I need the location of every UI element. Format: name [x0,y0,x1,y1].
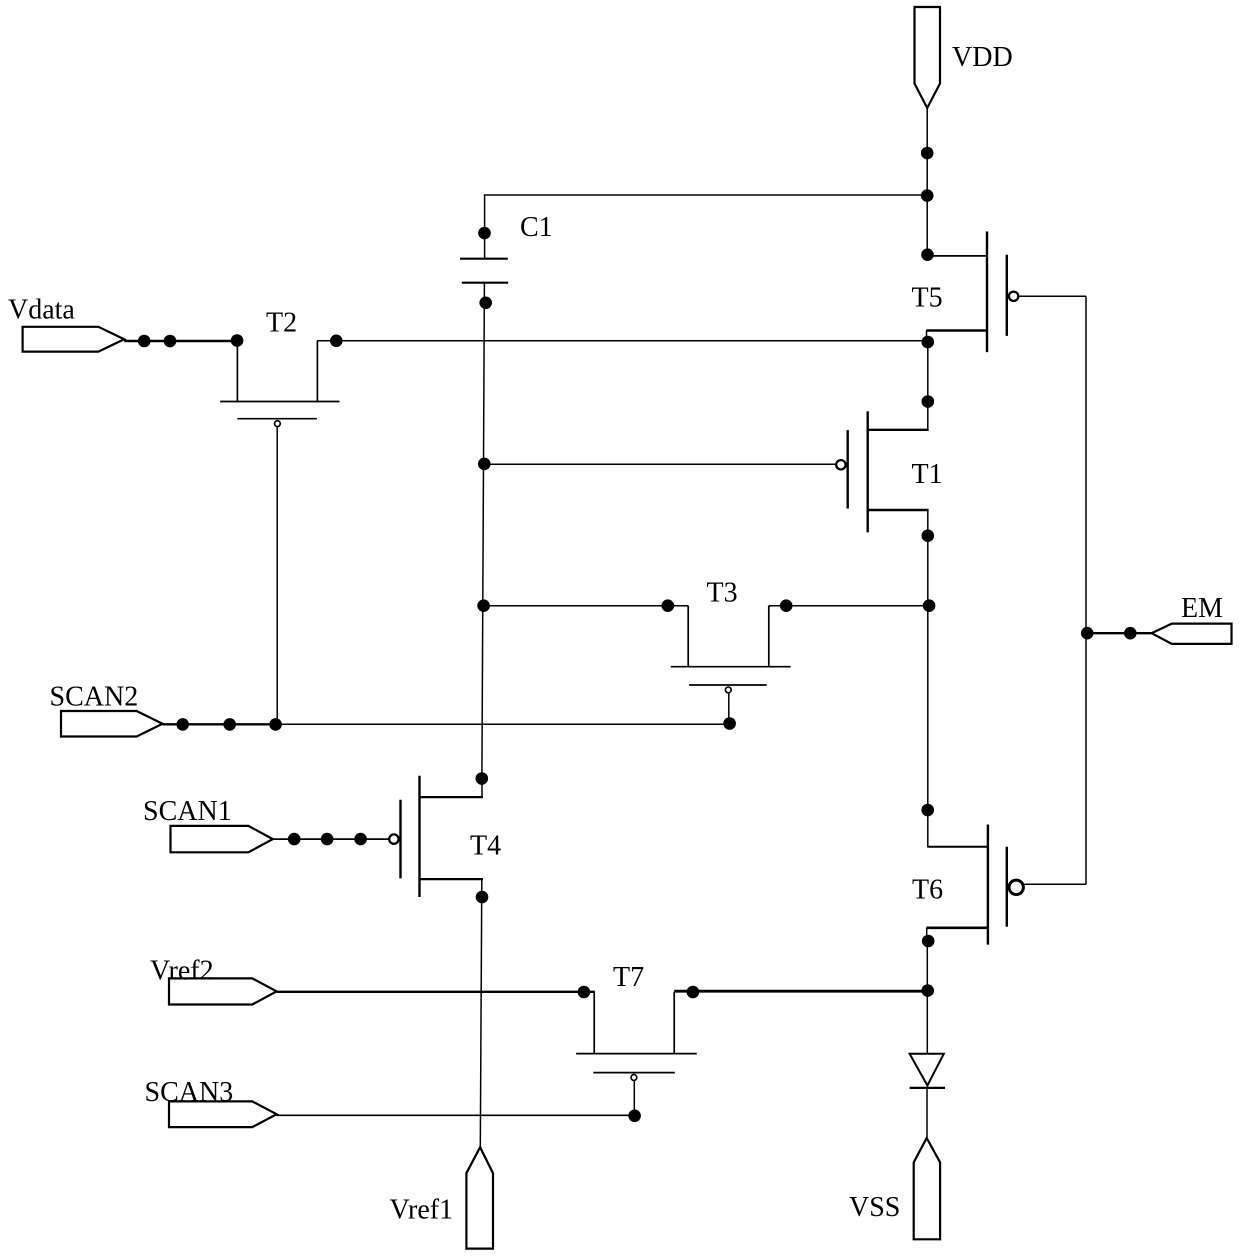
terminal EM [1152,624,1232,644]
wire T3 right to node B [769,605,929,607]
terminal Vref1 [466,1147,493,1248]
svg-text:Vref2: Vref2 [150,956,214,987]
junction dot T2 drain [330,335,343,348]
junction dot EM line [1081,627,1094,640]
transistor T5 source lead [926,329,987,332]
transistor T7 gate lead [633,1081,635,1116]
wire VDD vertical [926,108,928,256]
junction dot T5 drain [921,248,934,261]
svg-text:T1: T1 [912,459,943,490]
wire T7 right to VSS line [674,990,928,993]
transistor T3 left lead [687,606,689,667]
junction dot T2 source [231,334,244,347]
transistor T3 channel bar [671,666,791,668]
diode OLED cathode bar [910,1087,945,1089]
transistor T5 source bend [926,331,928,343]
wire T4 drain vertical [481,778,483,797]
terminal VDD [915,7,941,108]
svg-text:Vref1: Vref1 [390,1195,454,1226]
junction dot SCAN2 / T2 gate [269,718,282,731]
wire T5 gate to EM line [1019,295,1086,297]
transistor T4 gate circle [389,834,398,843]
junction dot VDD line upper [921,147,934,160]
junction dot SCAN1 pin 1 [288,833,301,846]
junction dot T7 right pin [687,986,700,999]
transistor T4 channel bar [418,776,420,897]
wire C1 bottom to T4 drain (node A vertical) [482,283,485,779]
wire node A to T1 gate [484,463,836,465]
wire diode cathode to VSS terminal [926,1088,928,1139]
wire T2 drain to T5 source node [317,340,927,342]
junction dot SCAN2 pin 1 [176,718,189,731]
wire EM junction to EM terminal [1086,632,1152,634]
terminal SCAN3 [169,1101,277,1127]
transistor T1 drain lead [868,429,929,431]
capacitor C1 bottom plate [462,282,508,284]
wire node A to T3 left [484,605,688,607]
transistor T7 left lead [593,992,595,1054]
svg-text:VSS: VSS [849,1192,900,1223]
junction dot T3 gate on SCAN2 [723,717,736,730]
transistor T2 channel bar [220,401,339,403]
transistor T2 source lead [236,341,238,402]
junction dot T7 left pin [578,986,591,999]
transistor T2 gate bar [237,418,317,420]
wire top horizontal VDD to C1 [484,194,927,196]
capacitor C1 top plate [460,258,508,260]
wire Vref2 to T7 left [277,991,595,993]
svg-text:T4: T4 [470,831,501,862]
junction dot EM pin [1124,627,1137,640]
wire SCAN2 trunk thick [163,723,276,725]
junction dot Vdata pin 1 [138,335,151,348]
terminal Vref2 [169,978,277,1004]
transistor T6 source lead [927,926,988,929]
wire T1 source down to T6 drain [927,510,929,847]
junction dot T4 drain [476,772,489,785]
terminal VSS [914,1138,940,1239]
junction dot SCAN1 pin 3 [354,833,367,846]
junction dot T4 source [476,891,489,904]
wire SCAN2 to T3 gate [276,723,730,725]
junction dot C1 bottom [479,297,492,310]
transistor T5 gate circle [1009,292,1018,301]
svg-text:Vdata: Vdata [8,294,75,325]
terminal SCAN1 [171,826,273,852]
transistor T5 channel bar [986,232,988,353]
transistor T7 gate bar [593,1072,675,1074]
junction dot VDD top-wire [921,189,934,202]
transistor T6 source bend [926,928,928,942]
junction dot C1 top [478,227,491,240]
transistor T2 gate circle [275,421,281,427]
wire EM vertical line [1085,296,1087,884]
transistor T4 drain lead [420,796,484,798]
wire node B T5 source to T1 drain [927,341,929,430]
svg-text:T5: T5 [912,283,943,314]
junction dot Vdata pin 2 [164,335,177,348]
transistor T5 gate bar [1006,255,1008,336]
transistor T7 channel bar [576,1053,697,1055]
wire Vdata to T2 source [124,340,237,342]
junction dot T6 source [922,935,935,948]
wire T2 gate down to SCAN2 [276,427,278,724]
transistor T1 source lead [868,509,929,511]
junction dot T5 source node [922,336,935,349]
terminal Vdata [23,327,125,352]
transistor T1 gate bar [847,430,849,508]
svg-text:SCAN3: SCAN3 [145,1077,234,1108]
wire C1 top lead [484,195,486,259]
transistor T5 drain lead [927,255,987,257]
junction dot T7 gate on SCAN3 [628,1110,641,1123]
wire EM line to T6 gate [1024,883,1086,885]
transistor T7 gate circle [631,1075,637,1081]
svg-text:T6: T6 [912,875,943,906]
transistor T2 drain lead [316,341,318,402]
transistor T3 gate circle [725,687,731,693]
junction dot SCAN2 pin 2 [223,718,236,731]
diode OLED anode triangle [910,1054,944,1086]
transistor T3 right lead [768,606,770,667]
junction dot node B / T3 wire [923,599,936,612]
junction dot T1 source [922,529,935,542]
svg-text:EM: EM [1181,593,1223,624]
junction dot SCAN1 pin 2 [321,833,334,846]
transistor T6 gate circle [1009,880,1023,894]
svg-text:T7: T7 [613,962,644,993]
transistor T3 gate lead [728,693,730,723]
junction dot T1 gate node A [478,458,491,471]
svg-text:T2: T2 [266,308,297,339]
junction dot node A / T3 wire [477,599,490,612]
wire SCAN3 to T7 gate [277,1114,635,1116]
svg-text:VDD: VDD [952,42,1013,73]
junction dot T1 drain [922,395,935,408]
transistor T6 channel bar [987,825,989,945]
transistor T6 gate bar [1006,847,1008,927]
transistor T7 right lead [673,992,675,1054]
terminal SCAN2 [61,711,163,737]
transistor T4 source lead [420,878,484,880]
junction dot T3 right pin [780,599,793,612]
junction dot VSS line / T7 wire [921,984,934,997]
transistor T1 gate circle [836,460,845,469]
svg-text:T3: T3 [707,578,738,609]
wire T4 source to Vref1 [480,879,482,1147]
svg-text:SCAN1: SCAN1 [143,796,232,827]
junction dot T6 drain [921,804,934,817]
svg-text:SCAN2: SCAN2 [50,682,139,713]
transistor T1 channel bar [867,411,869,532]
svg-text:C1: C1 [520,212,553,243]
wire T6 source down to VSS [926,941,928,1054]
transistor T4 gate bar [399,800,401,879]
transistor T3 gate bar [689,684,767,686]
transistor T6 drain lead [927,846,988,848]
junction dot T3 left pin [662,599,675,612]
wire SCAN1 to T4 gate [273,838,389,840]
